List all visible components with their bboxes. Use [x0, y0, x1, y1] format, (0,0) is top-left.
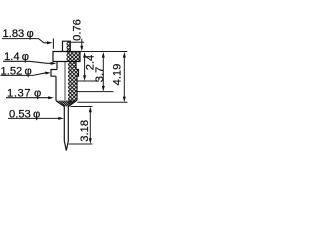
- label 1.4 dia: [3, 51, 56, 65]
- inner bore line: [64, 62, 66, 100]
- knurl hatch right half: [67, 41, 81, 106]
- flange: [53, 52, 80, 62]
- flange top extension line: [80, 51, 127, 53]
- ring: [51, 70, 79, 77]
- taper: [56, 100, 77, 106]
- label 1.37 dia: [6, 87, 54, 99]
- label 1.52 dia: [1, 65, 51, 77]
- neck: [57, 62, 76, 70]
- label 1.83 dia: [2, 28, 53, 44]
- extension line flange left: [52, 38, 54, 48]
- svg-text:4.19: 4.19: [112, 64, 124, 86]
- dim 2.4: [77, 52, 99, 81]
- svg-text:3.7: 3.7: [94, 67, 106, 83]
- dim 0.76: [71, 19, 85, 51]
- dim 3.7: [77, 52, 113, 92]
- tail tip: [64, 141, 68, 151]
- top bump: [63, 41, 71, 51]
- part outline: [51, 41, 80, 150]
- svg-text:0.76: 0.76: [72, 19, 84, 41]
- label 0.53 dia: [8, 108, 64, 120]
- barrel: [56, 76, 77, 101]
- dim 4.19: [77, 52, 127, 102]
- taper hatch: [56, 100, 77, 106]
- dim 3.18: [69, 107, 93, 145]
- tail pin: [64, 107, 68, 142]
